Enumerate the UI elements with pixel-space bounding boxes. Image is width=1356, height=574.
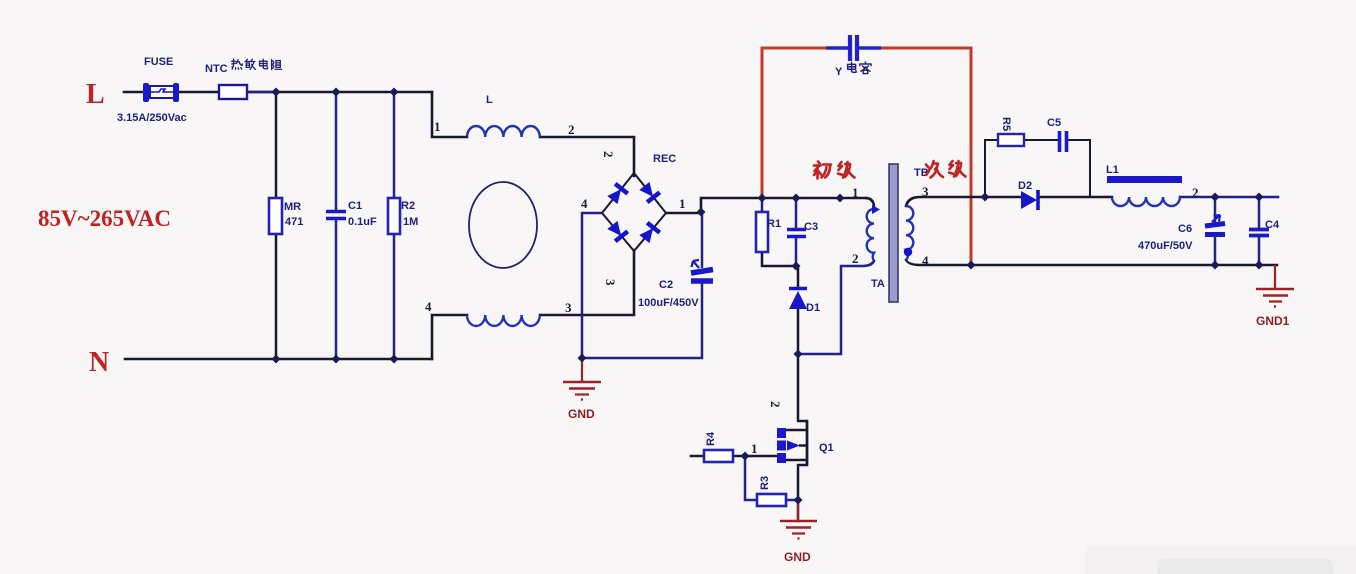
wire bridge pin1 to DC rail	[666, 198, 866, 213]
watermark box bottom right	[1085, 545, 1356, 574]
capacitor C2 bulk electrolytic	[691, 212, 713, 281]
svg-text:C4: C4	[1265, 219, 1280, 231]
svg-text:R1: R1	[767, 218, 781, 230]
junction output return / C4	[1255, 261, 1264, 270]
svg-text:2: 2	[601, 151, 616, 158]
svg-text:1: 1	[751, 441, 758, 456]
svg-text:R3: R3	[759, 476, 771, 490]
transformer primary phase dot	[872, 205, 880, 214]
wire C5 down to rail	[1069, 140, 1090, 197]
bridge diode bottom-right	[638, 223, 660, 244]
svg-text:Q1: Q1	[819, 442, 834, 454]
wire MR branch vertical	[275, 92, 278, 359]
wire N rail corner up to choke pin4	[432, 315, 467, 359]
svg-text:GND: GND	[784, 550, 811, 564]
svg-text:D2: D2	[1018, 180, 1032, 192]
junction output rail / C4	[1255, 193, 1264, 202]
svg-text:D1: D1	[806, 302, 820, 314]
wire transformer pin3 to secondary rail	[906, 197, 1021, 206]
junction output return / C6	[1211, 261, 1220, 270]
junction output rail / C6	[1211, 193, 1220, 202]
svg-text:471: 471	[285, 216, 303, 228]
capacitor C5 plates	[1060, 131, 1067, 152]
wire L rail corner down to choke pin1	[432, 92, 467, 137]
junction DC rail / R1 / Y-cap loop	[758, 194, 767, 203]
svg-text:4: 4	[581, 196, 588, 211]
choke core ellipse	[469, 182, 537, 268]
label NTC thermistor chinese	[232, 59, 282, 69]
junction dots group	[272, 88, 1264, 505]
svg-text:N: N	[89, 347, 109, 378]
transistor Q1 mosfet	[777, 421, 807, 465]
junction DC rail / transformer pin1	[836, 194, 845, 203]
wire C4 leads	[1258, 197, 1261, 265]
svg-text:L: L	[86, 79, 105, 110]
varistor MR body	[269, 198, 282, 234]
junction D1 / transformer pin2 / drain	[794, 350, 803, 359]
wire choke pin2 to bridge top	[540, 137, 634, 176]
wire R2 branch vertical	[393, 92, 396, 359]
svg-text:1: 1	[679, 196, 686, 211]
junction source node	[794, 496, 803, 505]
wire R5 to C5	[1024, 139, 1057, 141]
svg-text:C1: C1	[348, 200, 362, 212]
junction L rail / C1	[332, 88, 341, 97]
junction secondary rail / snubber	[981, 193, 990, 202]
wire clamp node to D1 cathode	[797, 266, 800, 287]
svg-text:GND: GND	[568, 407, 595, 421]
wire C6 leads	[1214, 197, 1217, 265]
svg-text:3: 3	[565, 300, 572, 315]
wire red Y-cap loop left vertical	[762, 48, 828, 196]
svg-text:L: L	[486, 94, 493, 106]
junction bulk ground node	[578, 354, 587, 363]
transformer primary winding	[867, 209, 874, 261]
svg-text:R5: R5	[1000, 117, 1012, 131]
svg-text:4: 4	[922, 253, 929, 268]
junction N rail / MR	[272, 355, 281, 364]
bridge diode top-right	[638, 181, 660, 202]
wire C1 branch vertical	[335, 92, 338, 359]
wire Q1 source to ground	[797, 500, 800, 521]
svg-text:3.15A/250Vac: 3.15A/250Vac	[117, 112, 187, 124]
fuse F1 symbol	[124, 83, 219, 102]
wire bridge pin4 to ground node	[582, 213, 601, 358]
wire red Y-cap loop right side	[878, 48, 971, 265]
inductor L1 winding	[1112, 197, 1180, 206]
label primary chinese (chu ji)	[814, 162, 855, 179]
wire D1 anode to drain node	[797, 309, 800, 354]
capacitor C3 plates	[787, 230, 806, 237]
junction secondary return / Y-cap loop	[967, 261, 976, 270]
resistor R3 body	[757, 494, 786, 506]
junction gate node	[741, 452, 750, 461]
label Y capacitor chinese	[848, 62, 871, 74]
bridge rectifier REC	[602, 173, 666, 251]
transformer secondary phase dot	[904, 248, 912, 256]
bridge diode top-left	[606, 184, 628, 205]
inductor L choke bottom winding	[467, 315, 540, 326]
svg-text:L1: L1	[1106, 164, 1119, 176]
svg-text:GND1: GND1	[1256, 314, 1290, 328]
junction N rail / C1	[332, 355, 341, 364]
resistor NTC thermistor	[219, 85, 247, 99]
wire R1 bottom lead to clamp node	[762, 252, 798, 266]
ground GND primary bulk	[563, 358, 601, 400]
svg-text:3: 3	[603, 279, 618, 286]
junction clamp R1 C3 D1	[792, 262, 801, 271]
transformer secondary winding	[906, 206, 913, 260]
svg-text:470uF/50V: 470uF/50V	[1138, 240, 1193, 252]
junction N rail / R2	[390, 355, 399, 364]
svg-text:1: 1	[852, 185, 859, 200]
resistor R1 body	[756, 212, 768, 252]
svg-text:3: 3	[922, 184, 929, 199]
junction L rail / MR	[272, 88, 281, 97]
svg-text:C5: C5	[1047, 117, 1061, 129]
inductor L1 core bar	[1107, 176, 1182, 183]
wire Y-cap blue leads	[828, 46, 879, 50]
wire choke pin3 to bridge bottom	[540, 250, 634, 315]
svg-text:Y: Y	[835, 66, 843, 78]
svg-text:TA: TA	[871, 278, 885, 290]
svg-text:FUSE: FUSE	[144, 56, 173, 68]
svg-text:R4: R4	[705, 431, 717, 446]
wire rail elbow into transformer pin1	[866, 198, 874, 209]
diode D1	[789, 289, 807, 310]
wire gate node down to R3	[745, 456, 757, 500]
svg-text:100uF/450V: 100uF/450V	[638, 297, 699, 309]
svg-text:2: 2	[768, 401, 783, 408]
capacitor CY Y-cap plates	[850, 35, 857, 61]
svg-text:C6: C6	[1178, 223, 1192, 235]
wire drain vertical to Q1	[798, 354, 807, 500]
wire R1 top lead	[761, 198, 764, 212]
label secondary chinese (ci ji)	[926, 161, 966, 178]
wire NTC to junction	[247, 91, 276, 94]
wire ground node to C2 bottom	[582, 282, 702, 358]
wire R3 to source node	[786, 499, 798, 502]
svg-text:0.1uF: 0.1uF	[348, 216, 377, 228]
transformer T1 core bar	[889, 164, 898, 302]
junction bridge output / C2	[697, 208, 706, 217]
resistor R2 body	[388, 198, 400, 234]
wire snubber up branch	[985, 140, 998, 197]
ground GND mosfet source	[780, 500, 817, 539]
svg-text:4: 4	[425, 299, 432, 314]
wire transformer pin2 down to drain node	[798, 261, 874, 354]
wire C3 leads	[795, 198, 798, 262]
capacitor C4 plates	[1249, 230, 1269, 236]
resistor R5 body	[998, 134, 1024, 146]
wire D2 cathode to L1	[1040, 196, 1112, 199]
svg-text:C3: C3	[804, 221, 818, 233]
svg-text:C2: C2	[659, 279, 673, 291]
wire transformer pin4 to secondary bottom rail	[906, 260, 1277, 265]
ground GND1 secondary	[1256, 265, 1294, 307]
wire R4 to gate	[733, 455, 778, 458]
diode D2	[1021, 190, 1038, 210]
svg-text:R2: R2	[401, 200, 415, 212]
capacitor C6 electrolytic	[1205, 215, 1225, 235]
capacitor C1 plates	[326, 212, 346, 219]
svg-text:1M: 1M	[403, 216, 418, 228]
wire N input rail	[125, 358, 432, 361]
inductor L common-mode choke top winding	[467, 126, 540, 137]
svg-text:2: 2	[568, 122, 575, 137]
svg-text:MR: MR	[284, 201, 301, 213]
svg-text:85V~265VAC: 85V~265VAC	[38, 206, 171, 231]
svg-text:2: 2	[1192, 185, 1199, 200]
svg-text:2: 2	[852, 251, 859, 266]
wire L1 to output rail	[1180, 196, 1278, 199]
wire R4 left lead	[691, 455, 704, 458]
resistor R4 body	[704, 450, 733, 462]
svg-text:NTC: NTC	[205, 63, 228, 75]
bridge diode bottom-left	[606, 220, 628, 241]
bridge edges	[602, 173, 666, 251]
svg-text:REC: REC	[653, 153, 676, 165]
junction DC rail / C3	[792, 194, 801, 203]
svg-text:1: 1	[434, 119, 441, 134]
wire L input rail	[124, 91, 432, 94]
junction L rail / R2	[390, 88, 399, 97]
